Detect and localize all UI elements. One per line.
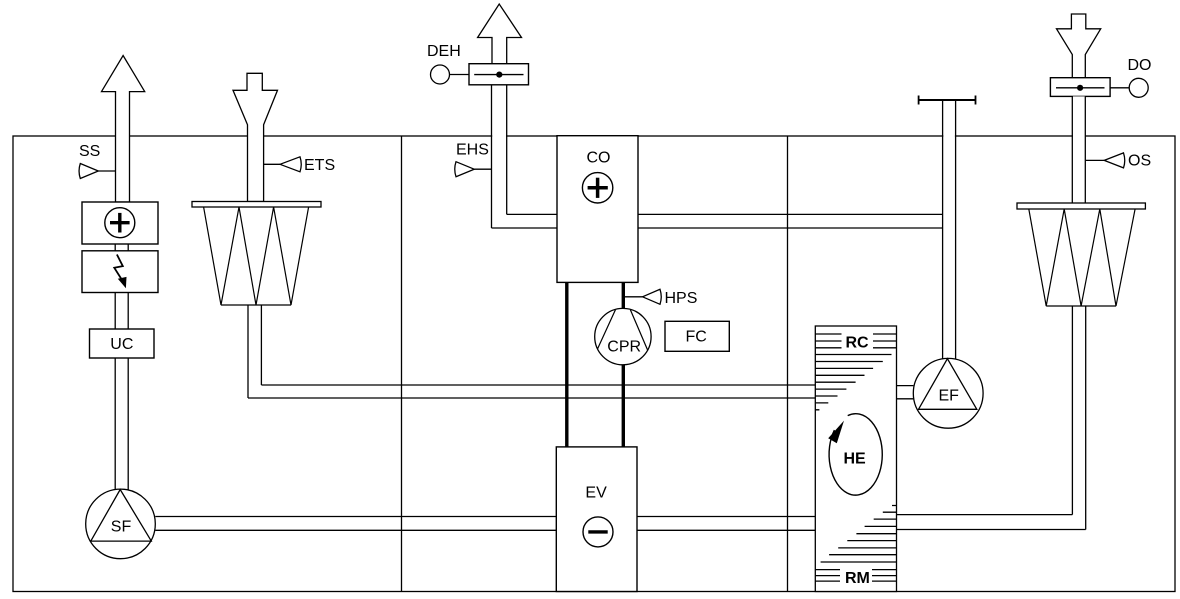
damper DEH	[427, 43, 529, 85]
svg-text:SF: SF	[111, 519, 132, 536]
svg-text:EF: EF	[939, 388, 960, 405]
electric heater box (lightning)	[82, 251, 158, 293]
duct HE to right filter (return)	[897, 306, 1086, 530]
svg-text:DEH: DEH	[427, 43, 461, 60]
duct heater to UC	[115, 293, 128, 330]
duct DEH down (exhaust riser)	[492, 85, 507, 228]
exhaust air outlet arrow (DEH riser)	[478, 4, 522, 64]
controller UC	[90, 329, 155, 358]
duct DO to right filter	[1072, 96, 1085, 203]
HE rotation ellipse with arrow	[828, 414, 882, 495]
compressor CPR	[595, 308, 651, 364]
svg-text:RM: RM	[845, 570, 870, 587]
evaporator EV	[556, 447, 637, 592]
damper DO	[1050, 57, 1151, 97]
filter left (bag filter)	[192, 202, 321, 306]
duct left filter to HE (outside air duct)	[248, 385, 815, 398]
sensor SS	[79, 143, 116, 179]
svg-text:HE: HE	[844, 451, 867, 468]
svg-text:DO: DO	[1128, 57, 1152, 74]
controller FC	[665, 321, 729, 351]
casing section divider right	[787, 136, 789, 592]
AHU casing outer border	[13, 136, 1175, 592]
sensor HPS	[623, 289, 697, 307]
svg-text:RC: RC	[846, 335, 870, 352]
duct between heater boxes	[115, 244, 128, 251]
svg-text:EHS: EHS	[456, 142, 489, 159]
fan EF	[913, 358, 983, 428]
supply air outlet arrow	[102, 56, 145, 203]
heat exchanger HE block	[815, 326, 896, 592]
duct SF to EV to HE (supply air duct)	[155, 517, 815, 531]
casing section divider left	[401, 136, 403, 592]
refrigerant pipe left (CO to EV)	[565, 282, 568, 447]
condenser CO	[557, 136, 638, 283]
svg-text:CO: CO	[587, 150, 611, 167]
svg-text:UC: UC	[110, 336, 133, 353]
svg-text:SS: SS	[79, 143, 100, 160]
duct CO to relief pipe	[492, 214, 943, 228]
refrigerant pipe right (CO to CPR to EV)	[622, 282, 625, 447]
svg-text:OS: OS	[1128, 153, 1151, 170]
svg-text:ETS: ETS	[304, 157, 335, 174]
svg-text:EV: EV	[585, 485, 607, 502]
relief pipe with end cap	[919, 96, 976, 359]
svg-text:CPR: CPR	[607, 339, 641, 356]
fan SF	[86, 489, 156, 559]
exhaust intake arrow right (above DO)	[1057, 14, 1101, 78]
svg-text:HPS: HPS	[665, 290, 698, 307]
sensor OS	[1086, 153, 1151, 170]
duct left filter elbow	[248, 305, 261, 398]
sensor ETS	[264, 157, 336, 174]
duct HE to EF stub	[897, 386, 914, 399]
filter right (bag filter)	[1017, 203, 1145, 306]
sensor EHS	[455, 142, 492, 177]
heating coil box (+)	[82, 202, 158, 244]
duct UC to SF	[115, 358, 128, 490]
outside air intake arrow (ETS duct)	[233, 73, 278, 201]
svg-text:FC: FC	[686, 329, 707, 346]
